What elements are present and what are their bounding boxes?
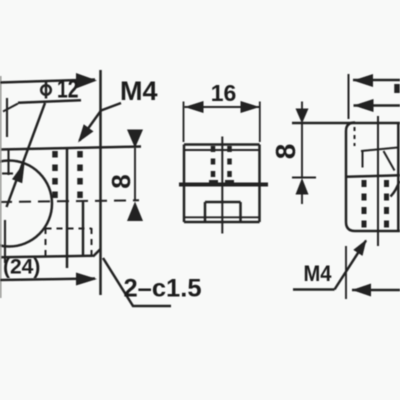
svg-text:8: 8 xyxy=(106,174,136,188)
svg-text:M4: M4 xyxy=(304,261,333,286)
svg-text:(24): (24) xyxy=(3,256,40,279)
svg-text:8: 8 xyxy=(270,144,301,160)
svg-text:2–c1.5: 2–c1.5 xyxy=(124,275,202,303)
svg-text:M4: M4 xyxy=(120,76,158,106)
svg-text:16: 16 xyxy=(211,80,237,106)
svg-text:12: 12 xyxy=(57,76,79,104)
